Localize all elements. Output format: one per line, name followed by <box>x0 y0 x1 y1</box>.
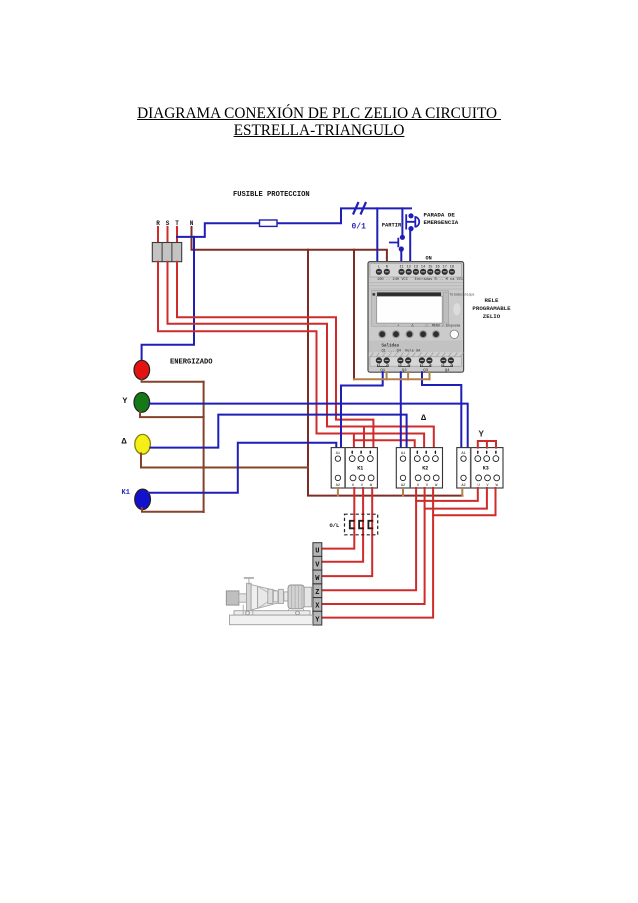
wire Q1-2 tick <box>386 372 388 379</box>
svg-text:Z: Z <box>315 589 319 597</box>
svg-text:Q2: Q2 <box>402 369 407 373</box>
switch 0/1 <box>353 202 359 215</box>
pushbutton PARADA DE EMERGENCIA (NC) <box>408 213 413 218</box>
svg-text:Δ: Δ <box>122 437 128 447</box>
wire N tap to Q common <box>353 250 355 379</box>
svg-text:1: 1 <box>400 364 402 368</box>
svg-text:2: 2 <box>386 364 388 368</box>
svg-text:U: U <box>417 484 419 488</box>
wire H3 return <box>141 454 308 468</box>
wire K3 A2 tick <box>461 488 463 496</box>
wire H4 to K1 coil <box>148 443 336 493</box>
wire K2-V to X <box>322 488 425 604</box>
svg-text:Telemecanique: Telemecanique <box>450 293 475 297</box>
lamp H1 red ENERGIZADO <box>134 360 150 379</box>
wire K1-V to OL <box>322 488 363 562</box>
wire Q common tan <box>354 378 430 380</box>
wire H2 return <box>140 412 204 418</box>
svg-text:Q3: Q3 <box>423 369 428 373</box>
wire Q2-2 tick <box>407 372 409 379</box>
svg-text:2: 2 <box>429 364 431 368</box>
overload element <box>359 521 364 529</box>
wire K1 A2 tick <box>337 488 339 496</box>
svg-text:U: U <box>315 548 319 556</box>
wire to PARTIR button <box>401 208 403 234</box>
svg-text:2: 2 <box>407 364 409 368</box>
svg-text:ENERGIZADO: ENERGIZADO <box>170 359 213 367</box>
wire to pilot lamp H1 <box>142 237 194 362</box>
svg-text:PROGRAMABLE: PROGRAMABLE <box>472 305 511 312</box>
lamp H3 yellow delta <box>135 434 151 454</box>
wire E-stop to PLC I2 <box>409 229 411 269</box>
svg-text:R: R <box>156 220 160 227</box>
svg-text:2: 2 <box>450 364 452 368</box>
wire S input <box>167 227 169 243</box>
svg-text:EMERGENCIA: EMERGENCIA <box>424 219 459 226</box>
fuse block F1 (3-phase) <box>152 243 181 262</box>
svg-text:1: 1 <box>421 364 423 368</box>
wire K1-W to OL <box>322 488 372 576</box>
svg-text:Y: Y <box>479 430 485 440</box>
wire H2 to K3 coil <box>150 404 468 453</box>
svg-text:K2: K2 <box>422 465 428 471</box>
wire lamp common vertical <box>203 382 205 512</box>
svg-text:RELE: RELE <box>485 297 499 304</box>
wire K3-W tie <box>433 488 495 515</box>
wire N tap to A2 common <box>308 250 462 496</box>
svg-text:A1: A1 <box>336 452 340 456</box>
svg-text:Δ: Δ <box>421 413 427 423</box>
svg-text:Y: Y <box>123 397 128 406</box>
wire T input <box>176 227 178 243</box>
wire phase T <box>177 262 373 448</box>
overload element <box>368 521 373 529</box>
svg-text:ON: ON <box>426 256 432 262</box>
svg-text:T: T <box>175 220 179 227</box>
svg-text:K3: K3 <box>483 465 489 471</box>
wire K3-V tie <box>425 488 487 509</box>
fuse FU control <box>260 220 278 226</box>
wire K2-U to Z <box>322 488 416 590</box>
svg-text:A1: A1 <box>401 452 405 456</box>
svg-text:1: 1 <box>378 364 380 368</box>
contactor K3 <box>457 448 503 488</box>
wire N to PLC <box>192 227 387 269</box>
svg-text:100 .. 240 VCC Entradas R...: 100 .. 240 VCC Entradas R... M ca VCC <box>377 277 464 282</box>
contactor K2 <box>396 448 442 488</box>
wire K2-W to Y <box>322 488 433 618</box>
wire Q3 to K3 coil <box>422 372 461 452</box>
overload element <box>350 521 355 529</box>
svg-text:- + Δ □ MENU /: - + Δ □ MENU / Esquema <box>383 323 460 328</box>
PLC rele programable Zelio U1 <box>368 262 474 373</box>
wire PARTIR to PLC I1 <box>400 249 402 269</box>
wire phase S <box>168 262 434 448</box>
wire Q3-2 tick <box>429 372 431 379</box>
svg-text:N: N <box>190 220 194 227</box>
wire H3 to K2 coil <box>150 415 406 453</box>
wire Q1 to K1 coil <box>341 372 383 452</box>
svg-text:S: S <box>166 220 170 227</box>
wire Q2 to K2 coil <box>400 372 402 452</box>
overload relay O/L <box>345 514 378 535</box>
wire phase S drop K1-2 <box>363 427 365 448</box>
motor M1 (pump set sketch) <box>226 578 312 625</box>
svg-text:0/1: 0/1 <box>352 223 367 232</box>
lamp H2 green Y <box>134 393 150 413</box>
wire R input <box>157 227 159 243</box>
svg-text:Q4: Q4 <box>445 369 450 373</box>
wire phase R branch K2-1 <box>354 440 415 447</box>
svg-text:FUSIBLE PROTECCION: FUSIBLE PROTECCION <box>233 191 310 199</box>
wire K3-U tie <box>416 488 478 501</box>
wire phase R <box>158 262 424 448</box>
svg-text:1: 1 <box>443 364 445 368</box>
wire control feed from T <box>177 208 411 237</box>
wire 0/1 to PLC L <box>376 208 378 269</box>
svg-text:A1: A1 <box>461 452 465 456</box>
wire phase R drop K1-1 <box>353 434 355 448</box>
svg-text:PARADA DE: PARADA DE <box>424 212 456 219</box>
lamp H4 blue K1 <box>135 489 151 509</box>
wire H1 return <box>142 379 204 382</box>
wire K2 A2 tick <box>402 488 404 496</box>
wire star bridge <box>478 441 496 448</box>
svg-text:K1: K1 <box>122 489 130 497</box>
svg-text:K1: K1 <box>357 465 363 471</box>
svg-text:Salidas: Salidas <box>382 343 400 348</box>
pushbutton PARTIR (NO) <box>400 235 405 240</box>
contactor K1 <box>331 448 377 488</box>
motor terminal strip <box>313 543 322 625</box>
svg-text:O/L: O/L <box>330 523 340 529</box>
svg-text:PARTIR: PARTIR <box>382 223 402 229</box>
wire K1-U to OL <box>322 488 354 549</box>
svg-text:ZELIO: ZELIO <box>483 313 501 320</box>
wire H4 return <box>142 508 204 512</box>
